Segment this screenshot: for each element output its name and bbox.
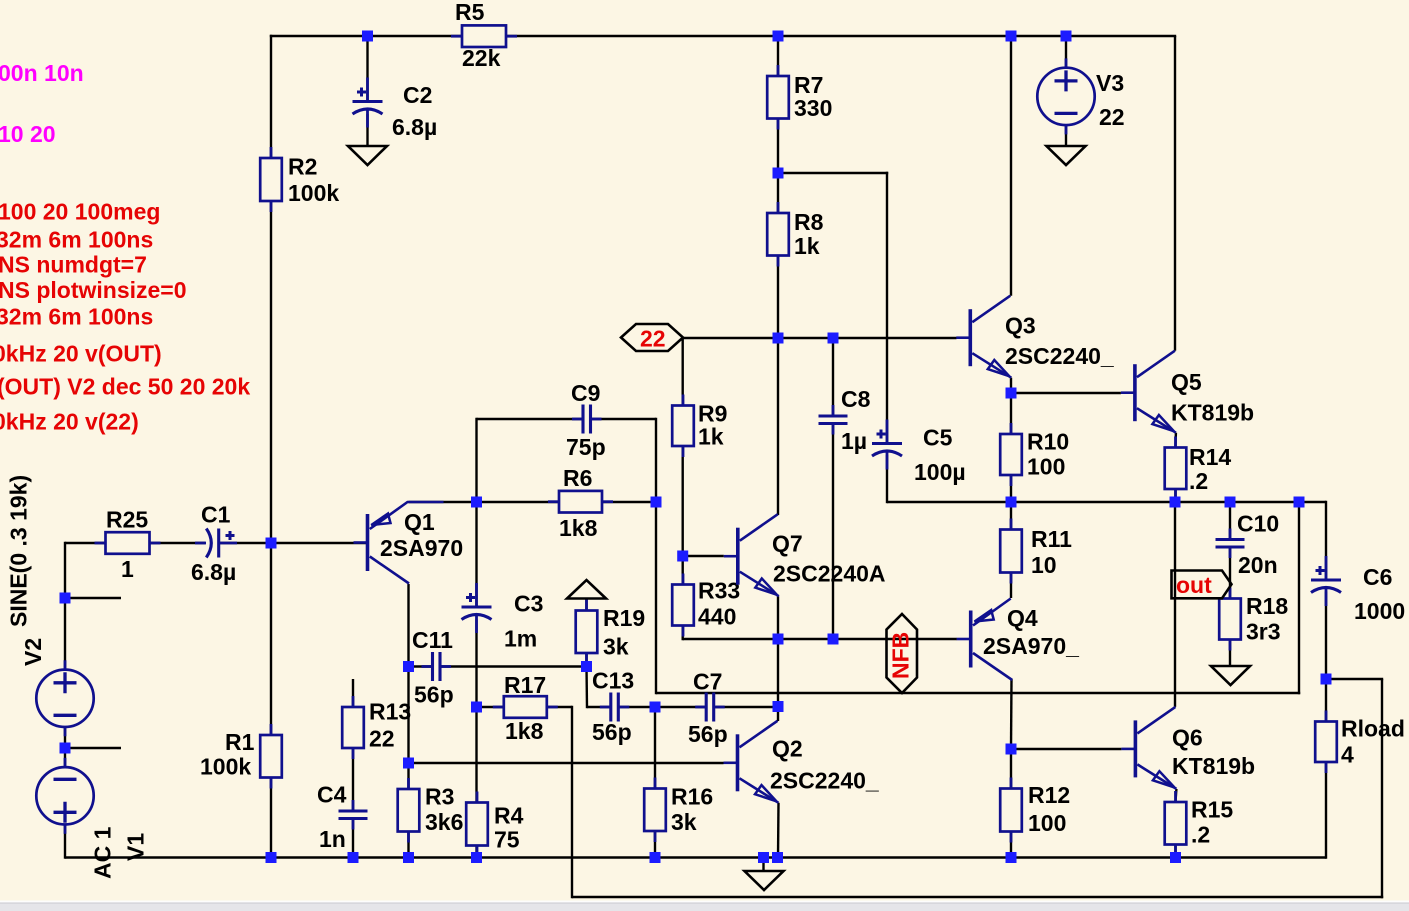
svg-text:1m: 1m (504, 626, 537, 652)
svg-text:330: 330 (794, 95, 832, 121)
junction (266, 538, 277, 549)
junction (471, 702, 482, 713)
junction (828, 634, 839, 645)
wire R10 to R11 (1010, 475, 1012, 530)
resistor R5 (451, 0, 517, 71)
wire R7 top (777, 36, 779, 76)
wire R9 column (682, 337, 684, 556)
svg-text:20n: 20n (1238, 552, 1278, 578)
wire mid rail y=502 (887, 501, 1326, 503)
svg-text:NS plotwinsize=0: NS plotwinsize=0 (0, 277, 187, 303)
wire V1 stub (65, 747, 121, 749)
wire C8 top (832, 338, 834, 416)
resistor R2 (260, 147, 339, 212)
wire R33 column (682, 556, 684, 640)
svg-text:C3: C3 (514, 591, 543, 617)
svg-text:56p: 56p (688, 721, 728, 747)
power flag (R19 top) (567, 580, 606, 599)
capacitor C9 (566, 380, 606, 460)
svg-text:AC 1: AC 1 (90, 826, 116, 879)
junction (773, 701, 784, 712)
svg-text:Q3: Q3 (1005, 313, 1036, 339)
wire ground stem (762, 858, 764, 872)
capacitor C7 (688, 669, 728, 748)
wire C3 to R4 (475, 620, 477, 803)
wire C9 left (477, 418, 584, 420)
svg-text:2SC2240A: 2SC2240A (773, 561, 886, 587)
wire R15 bottom (1174, 845, 1176, 859)
junction (773, 31, 784, 42)
svg-text:Q1: Q1 (404, 509, 435, 535)
resistor R7 (767, 65, 832, 130)
wire C11 left (409, 665, 432, 667)
svg-text:Q4: Q4 (1007, 605, 1038, 631)
svg-text:100 20 100meg: 100 20 100meg (0, 199, 160, 225)
resistor R13 (342, 696, 411, 759)
transistor Q2 (NPN) (724, 721, 879, 803)
svg-text:C1: C1 (201, 502, 231, 528)
wire Q1 collector column (407, 584, 409, 859)
resistor R9 (672, 395, 727, 458)
capacitor C10 (1216, 511, 1280, 579)
svg-text:Rload: Rload (1341, 716, 1405, 742)
capacitor C13 (592, 668, 634, 746)
svg-text:3k: 3k (603, 634, 629, 660)
ground (R18) (1211, 666, 1250, 685)
resistor R33 (672, 574, 740, 637)
wire to right edge (1326, 678, 1383, 680)
junction (348, 852, 359, 863)
junction (1061, 31, 1072, 42)
wire output box right edge (1298, 501, 1300, 694)
junction (758, 852, 769, 863)
svg-text:6.8µ: 6.8µ (392, 114, 437, 140)
junction (471, 852, 482, 863)
svg-text:2SA970_: 2SA970_ (983, 633, 1079, 659)
ground (C2) (348, 146, 387, 165)
wire left column x=271 (270, 35, 272, 859)
svg-text:R6: R6 (563, 465, 592, 491)
svg-text:C11: C11 (412, 627, 453, 653)
transistor Q3 (NPN) (956, 296, 1114, 378)
resistor R6 (548, 465, 613, 541)
capacitor C2 (polarized) (353, 78, 438, 141)
svg-text:NS numdgt=7: NS numdgt=7 (0, 252, 147, 278)
junction (1006, 497, 1017, 508)
svg-text:00n 10n: 00n 10n (0, 60, 84, 86)
wire R4 bottom (475, 846, 477, 859)
wire feedback bottom wire (572, 896, 1383, 898)
svg-text:0kHz 20 v(22): 0kHz 20 v(22) (0, 409, 139, 435)
wire V2 stub (65, 597, 121, 599)
capacitor C8 (819, 386, 871, 454)
wire to Q7 collector (777, 338, 779, 515)
svg-text:R18: R18 (1246, 593, 1288, 619)
wire R19 bottom (585, 653, 587, 668)
resistor R12 (1000, 778, 1070, 843)
node 22 flag (621, 324, 683, 352)
svg-text:1k: 1k (794, 233, 820, 259)
resistor R14 (1165, 437, 1232, 501)
junction (1170, 497, 1181, 508)
wire Q1 emitter rail y=502 (409, 501, 657, 503)
junction (60, 743, 71, 754)
wire C2 to ground (366, 114, 368, 146)
resistor R4 (466, 792, 523, 857)
ground (emitter rail) (745, 871, 784, 890)
resistor R11 (1000, 519, 1072, 584)
svg-text:4: 4 (1341, 742, 1354, 768)
svg-text:C13: C13 (592, 668, 634, 694)
wire R7-R8-down (777, 119, 779, 339)
wire NFB row to Q4 base (683, 638, 957, 640)
svg-text:R15: R15 (1191, 797, 1233, 823)
resistor R3 (398, 778, 464, 843)
junction (471, 497, 482, 508)
junction (1225, 497, 1236, 508)
wire C10 to R18 (1229, 547, 1231, 599)
wire Q5 collector up (1174, 36, 1176, 351)
junction (651, 497, 662, 508)
svg-text:56p: 56p (592, 719, 632, 745)
svg-text:R16: R16 (671, 784, 713, 810)
svg-text:3k: 3k (671, 809, 697, 835)
svg-text:R11: R11 (1031, 526, 1072, 552)
junction (581, 661, 592, 672)
transistor Q4 (PNP) (957, 599, 1079, 681)
svg-text:R4: R4 (494, 803, 524, 829)
wire Q3 emitter to R10 (1010, 378, 1012, 434)
wire Q6 emitter to R15 (1174, 789, 1177, 802)
svg-text:100: 100 (1027, 454, 1065, 480)
svg-text:R3: R3 (425, 784, 454, 810)
junction (403, 852, 414, 863)
svg-text:C5: C5 (923, 425, 953, 451)
wire C6 top (1325, 501, 1327, 580)
wire Q5 emitter to R14 (1174, 433, 1177, 448)
svg-text:KT819b: KT819b (1171, 400, 1254, 426)
junction (266, 852, 277, 863)
svg-text:3k6: 3k6 (425, 809, 463, 835)
svg-text:56p: 56p (414, 682, 454, 708)
svg-text:V3: V3 (1096, 70, 1124, 96)
junction (1294, 497, 1305, 508)
svg-text:R33: R33 (698, 578, 740, 604)
capacitor C1 (polarized) (191, 502, 237, 586)
wire R19 top (585, 599, 587, 612)
svg-text:22k: 22k (462, 45, 501, 71)
svg-text:2SC2240_: 2SC2240_ (770, 768, 879, 794)
ground (V3) (1047, 146, 1086, 165)
svg-text:R12: R12 (1028, 782, 1070, 808)
wire V2-V1 link (64, 727, 66, 767)
wire C11 right (441, 665, 587, 667)
svg-text:100µ: 100µ (914, 459, 966, 485)
svg-text:100k: 100k (288, 180, 339, 206)
wire long y=693 wire (656, 692, 1300, 694)
wire R12 top (1010, 749, 1012, 789)
wire feedback left vertical (571, 706, 573, 898)
wire to Q5 base (1011, 392, 1121, 394)
junction (1006, 31, 1017, 42)
svg-text:C6: C6 (1363, 564, 1392, 590)
svg-text:1n: 1n (319, 826, 346, 852)
resistor Rload (1315, 711, 1405, 774)
capacitor C6 (polarized) (1311, 556, 1405, 624)
svg-text:440: 440 (698, 604, 736, 630)
wire Q2 base row (409, 762, 724, 764)
svg-text:75: 75 (494, 827, 520, 853)
capacitor C4 (317, 782, 368, 853)
svg-text:R1: R1 (225, 729, 255, 755)
wire net22 row to Q3 base (683, 337, 957, 339)
wire to Q7 base (683, 555, 724, 557)
voltage source V2 (36, 660, 93, 736)
resistor R19 (576, 600, 646, 665)
wire C5 bottom (886, 455, 888, 503)
wire output box left edge (1174, 501, 1176, 707)
svg-text:.2: .2 (1191, 822, 1210, 848)
svg-text:C2: C2 (403, 82, 432, 108)
wire input row right to Q1 base (220, 542, 369, 544)
svg-text:R14: R14 (1189, 444, 1231, 470)
capacitor C3 (polarized) (462, 583, 544, 652)
junction (677, 551, 688, 562)
junction (403, 758, 414, 769)
wire C13 drop (585, 667, 588, 709)
wire C2 top (366, 36, 368, 101)
transistor Q6 (NPN) (1121, 707, 1255, 789)
wire C10 top (1229, 502, 1231, 539)
junction (1006, 744, 1017, 755)
svg-text:R8: R8 (794, 209, 824, 235)
svg-text:out: out (1176, 572, 1212, 598)
svg-text:NFB: NFB (888, 632, 914, 679)
wire input row left (65, 542, 205, 544)
wire bottom rail (65, 856, 1326, 858)
svg-text:32m 6m 100ns: 32m 6m 100ns (0, 304, 153, 330)
svg-text:2SC2240_: 2SC2240_ (1005, 343, 1114, 369)
svg-text:V1: V1 (123, 833, 149, 861)
resistor R18 (1219, 588, 1288, 651)
svg-text:22: 22 (640, 326, 666, 352)
wire x=656 down (655, 418, 657, 694)
window bottom strip (0, 901, 1409, 904)
wire C6 bottom (1325, 592, 1327, 680)
wire C9 right (591, 418, 656, 420)
wire x=476.5 C9 to C3 (475, 418, 477, 607)
wire V2 top (64, 542, 66, 670)
wire R13 top stub (352, 679, 354, 708)
wire R16 bottom (654, 831, 656, 859)
svg-text:R10: R10 (1027, 429, 1069, 455)
junction (773, 168, 784, 179)
junction (1170, 852, 1181, 863)
resistor R10 (1000, 423, 1069, 486)
svg-text:1: 1 (121, 556, 134, 582)
svg-text:C9: C9 (571, 380, 600, 406)
wire C7 left (655, 706, 706, 708)
svg-text:R2: R2 (288, 154, 317, 180)
transistor Q1 (PNP) (354, 502, 464, 584)
svg-text:R13: R13 (369, 699, 411, 725)
svg-text:22: 22 (369, 726, 395, 752)
wire Q7 emitter to Q2 collector (777, 596, 779, 721)
svg-text:Q2: Q2 (772, 736, 803, 762)
wire V1 bottom (64, 824, 66, 858)
junction (773, 634, 784, 645)
svg-text:KT819b: KT819b (1172, 753, 1255, 779)
junction (362, 31, 373, 42)
svg-text:10 20: 10 20 (0, 121, 56, 147)
wire R13 to C4 (352, 748, 354, 811)
resistor R16 (644, 778, 713, 843)
wire R11 to Q4 (1010, 573, 1012, 599)
svg-text:C10: C10 (1237, 511, 1279, 537)
junction (1321, 674, 1332, 685)
svg-text:V2: V2 (20, 638, 46, 666)
junction (828, 333, 839, 344)
svg-text:R19: R19 (603, 605, 645, 631)
resistor R8 (767, 202, 823, 267)
wire C5 top (886, 172, 888, 443)
wire C7 right (716, 706, 780, 708)
svg-text:6.8µ: 6.8µ (191, 559, 236, 585)
transistor Q5 (NPN) (1121, 351, 1254, 433)
resistor R15 (1165, 791, 1234, 856)
transistor Q7 (NPN) (724, 514, 886, 596)
svg-text:.2: .2 (1189, 468, 1208, 494)
svg-text:C7: C7 (693, 669, 722, 695)
wire R18 to ground (1229, 640, 1231, 667)
junction (773, 333, 784, 344)
svg-text:SINE(0 .3 19k): SINE(0 .3 19k) (6, 475, 32, 627)
svg-text:1k8: 1k8 (505, 718, 544, 744)
wire C4 bottom (352, 819, 354, 859)
voltage source V3 (1037, 58, 1094, 134)
svg-text:Q6: Q6 (1172, 725, 1203, 751)
voltage source V1 (36, 758, 93, 834)
wire Q4 collector down (1010, 679, 1013, 749)
wire R14 bottom (1174, 489, 1176, 503)
wire Q2 emitter down (777, 803, 780, 859)
wire C13 left (587, 706, 610, 708)
svg-text:(OUT) V2 dec 50 20 20k: (OUT) V2 dec 50 20 20k (0, 374, 250, 400)
svg-text:R17: R17 (504, 672, 546, 698)
wire V3 top (1065, 36, 1067, 68)
wire top +22V rail (270, 35, 1176, 37)
svg-text:2SA970: 2SA970 (380, 535, 463, 561)
wire R16 top (654, 706, 656, 789)
svg-text:100k: 100k (200, 754, 251, 780)
svg-text:1µ: 1µ (841, 428, 867, 454)
node NFB flag (887, 614, 918, 693)
svg-text:75p: 75p (566, 434, 606, 460)
junction (403, 661, 414, 672)
wire to Q6 base (1011, 748, 1121, 750)
wire Rload column (1325, 679, 1327, 859)
junction (772, 852, 783, 863)
svg-text:0kHz 20 v(OUT): 0kHz 20 v(OUT) (0, 341, 162, 367)
svg-text:1k8: 1k8 (559, 515, 598, 541)
svg-text:3r3: 3r3 (1246, 619, 1281, 645)
wire C8 bottom (832, 424, 834, 639)
capacitor C5 (polarized) (872, 420, 966, 486)
svg-text:C4: C4 (317, 782, 347, 808)
junction (1006, 852, 1017, 863)
svg-text:10: 10 (1031, 552, 1057, 578)
capacitor C11 (412, 627, 454, 708)
junction (1006, 388, 1017, 399)
svg-text:R25: R25 (106, 507, 148, 533)
resistor R17 (493, 672, 558, 744)
junction (60, 593, 71, 604)
wire V3 to ground (1065, 125, 1067, 146)
wire R17 row (477, 706, 573, 708)
wire R12 bottom (1010, 832, 1012, 859)
wire right vertical (1381, 679, 1383, 898)
svg-text:100: 100 (1028, 810, 1066, 836)
svg-text:Q5: Q5 (1171, 369, 1202, 395)
svg-text:32m 6m 100ns: 32m 6m 100ns (0, 227, 153, 253)
junction (650, 702, 661, 713)
svg-text:Q7: Q7 (772, 531, 803, 557)
svg-text:C8: C8 (841, 386, 871, 412)
node out flag (1172, 571, 1232, 599)
resistor R1 (200, 724, 282, 789)
wire Q3 collector up (1010, 36, 1012, 296)
resistor R25 (95, 507, 161, 583)
svg-text:R5: R5 (455, 0, 485, 25)
svg-text:1k: 1k (698, 424, 724, 450)
wire C13 right (619, 706, 655, 708)
svg-text:1000: 1000 (1354, 598, 1405, 624)
svg-text:22: 22 (1099, 104, 1125, 130)
wire stub to C5 (778, 172, 888, 174)
junction (650, 852, 661, 863)
